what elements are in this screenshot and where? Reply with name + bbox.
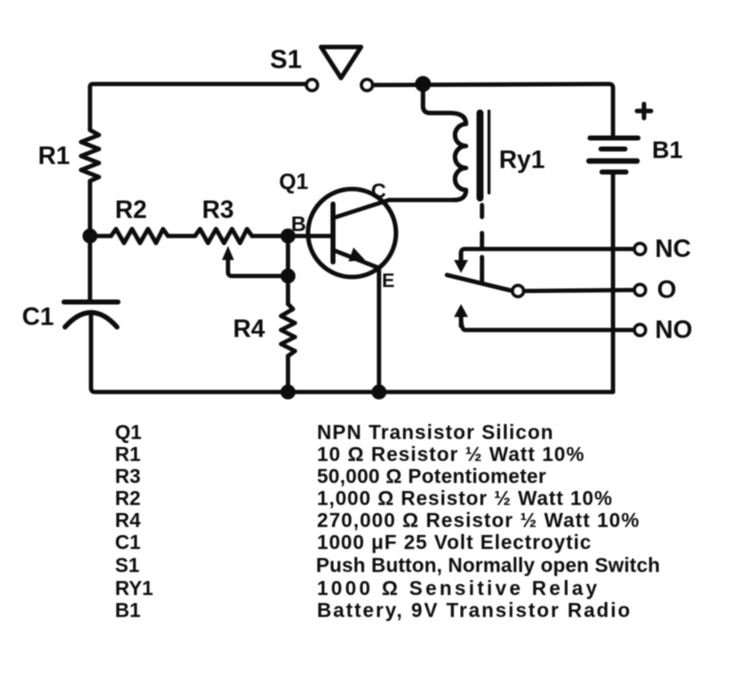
node relay junction — [415, 76, 431, 92]
svg-text:R2: R2 — [115, 488, 141, 510]
terminal NC — [635, 244, 646, 255]
svg-text:B1: B1 — [652, 137, 683, 164]
wire NC — [461, 249, 634, 262]
svg-text:1000 μF 25 Volt Electroytic: 1000 μF 25 Volt Electroytic — [317, 532, 591, 554]
svg-text:C: C — [371, 180, 386, 203]
relay dashed actuator link — [480, 205, 484, 283]
resistor R2 — [111, 229, 168, 243]
svg-text:10 Ω Resistor ½ Watt 10%: 10 Ω Resistor ½ Watt 10% — [317, 444, 584, 466]
svg-text:Push Button, Normally open Swi: Push Button, Normally open Switch — [316, 555, 660, 577]
resistor R1 — [81, 130, 99, 181]
relay armature — [447, 275, 513, 291]
wire base into transistor — [288, 234, 331, 238]
relay Ry1 core bars — [480, 111, 489, 198]
node base-left junction — [83, 229, 98, 244]
terminal NO — [635, 325, 646, 336]
relay NC contact arrow — [454, 253, 468, 273]
wire base node down — [286, 236, 290, 276]
svg-text:R3: R3 — [115, 466, 141, 488]
wire R2-R3 — [168, 234, 195, 238]
wire R2 lead — [97, 234, 111, 238]
wire left rail middle — [88, 181, 92, 302]
parts list — [115, 422, 660, 622]
svg-text:R3: R3 — [202, 196, 234, 224]
relay pivot — [513, 286, 524, 297]
transistor Q1 — [308, 189, 396, 277]
svg-text:Ry1: Ry1 — [499, 146, 545, 174]
battery B1 plates — [589, 138, 638, 172]
wire emitter down — [377, 268, 381, 392]
svg-text:RY1: RY1 — [115, 578, 153, 600]
svg-text:E: E — [382, 271, 395, 292]
capacitor C1 — [64, 302, 118, 327]
svg-text:S1: S1 — [270, 44, 302, 74]
svg-text:R1: R1 — [115, 444, 141, 466]
wire R4 bottom lead — [286, 356, 290, 392]
node emitter ground junction — [372, 385, 387, 400]
svg-text:R4: R4 — [233, 315, 265, 343]
node wiper junction — [281, 269, 296, 284]
svg-text:Battery, 9V Transistor Radio: Battery, 9V Transistor Radio — [317, 600, 630, 622]
svg-text:S1: S1 — [115, 555, 139, 577]
wire collector to relay coil — [389, 198, 454, 202]
wire left rail bottom — [91, 313, 613, 392]
resistor R4 — [281, 304, 295, 356]
svg-text:1,000 Ω Resistor ½ Watt 10%: 1,000 Ω Resistor ½ Watt 10% — [317, 488, 612, 510]
wire top rail left — [90, 84, 306, 130]
wire R3 to base node — [252, 234, 281, 238]
svg-text:B: B — [291, 213, 306, 236]
svg-text:R2: R2 — [115, 196, 147, 224]
relay NO contact arrow — [454, 304, 468, 326]
switch S1 push button triangle — [321, 47, 361, 78]
wire R4 top lead — [286, 276, 290, 304]
svg-text:NO: NO — [655, 316, 693, 344]
svg-text:NC: NC — [655, 235, 691, 263]
svg-text:R4: R4 — [115, 510, 141, 532]
node base junction B — [281, 229, 296, 244]
svg-text:R1: R1 — [38, 142, 70, 170]
potentiometer R3 — [195, 229, 252, 243]
wire battery negative down — [611, 172, 615, 392]
svg-text:Q1: Q1 — [279, 169, 308, 194]
svg-text:O: O — [657, 276, 676, 304]
svg-text:1000 Ω Sensitive Relay: 1000 Ω Sensitive Relay — [317, 578, 598, 600]
svg-text:C1: C1 — [115, 532, 141, 554]
wire O — [524, 290, 634, 291]
label battery plus — [637, 104, 651, 118]
svg-text:270,000 Ω Resistor ½ Watt 10%: 270,000 Ω Resistor ½ Watt 10% — [317, 510, 639, 532]
terminal O — [635, 285, 646, 296]
svg-text:50,000 Ω Potentiometer: 50,000 Ω Potentiometer — [317, 466, 546, 488]
svg-text:C1: C1 — [22, 303, 54, 331]
switch S1 contacts — [307, 80, 373, 91]
relay Ry1 coil — [423, 84, 466, 200]
svg-text:B1: B1 — [115, 600, 141, 622]
wire switch to battery top — [373, 84, 613, 138]
potentiometer R3 wiper arrow — [222, 246, 281, 276]
node R4 ground junction — [281, 385, 296, 400]
wire NO — [461, 316, 634, 330]
svg-text:NPN Transistor Silicon: NPN Transistor Silicon — [317, 422, 553, 444]
svg-text:Q1: Q1 — [115, 422, 142, 444]
